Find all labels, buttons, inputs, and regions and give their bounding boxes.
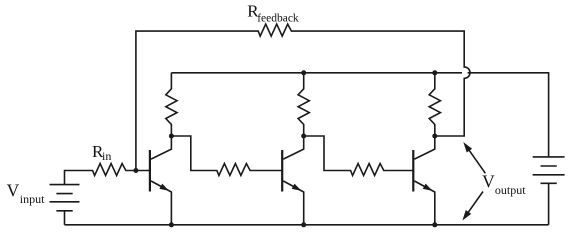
svg-text:in: in <box>102 149 111 163</box>
svg-text:output: output <box>495 183 526 197</box>
svg-text:feedback: feedback <box>257 12 299 24</box>
svg-text:V: V <box>482 172 495 192</box>
svg-text:V: V <box>7 181 20 201</box>
svg-text:input: input <box>20 192 45 206</box>
